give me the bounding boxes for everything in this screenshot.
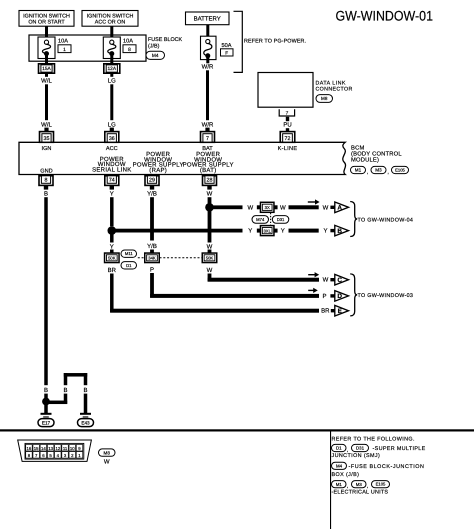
wire row A from junction bbox=[210, 205, 243, 209]
dashed link between inline connectors (SMJ row) bbox=[138, 257, 202, 259]
brace to GW-WINDOW-03 bbox=[350, 274, 413, 316]
ground E17 bbox=[38, 413, 54, 427]
inline connector 3XL (M74/D31) row B bbox=[257, 226, 278, 236]
fuse F (50A) bbox=[201, 36, 217, 59]
svg-text:B: B bbox=[63, 387, 67, 394]
direction arrow row C bbox=[308, 272, 319, 277]
connector 15A (J/B) bbox=[39, 64, 55, 73]
svg-text:W: W bbox=[323, 277, 329, 284]
wire label W (row A left) bbox=[247, 204, 253, 211]
wire label Y (row B right) bbox=[281, 228, 285, 235]
svg-text:IGNITION SWITCH: IGNITION SWITCH bbox=[87, 13, 134, 19]
wire Y below junction bbox=[110, 231, 114, 243]
connector ovals M1, M3, E105 bbox=[351, 166, 409, 175]
direction arrow row D bbox=[308, 288, 318, 293]
BCM label ACC bbox=[106, 146, 118, 152]
svg-text:W: W bbox=[207, 190, 213, 197]
wire: right leg to ground E43 bbox=[84, 394, 88, 414]
svg-text:B: B bbox=[44, 190, 48, 197]
connector oval M8 + W bbox=[99, 449, 116, 465]
wire label P (row D end) bbox=[322, 293, 326, 300]
svg-text:Y: Y bbox=[281, 228, 285, 235]
wire label P below connector bbox=[150, 266, 154, 273]
svg-text:-ELECTRICAL UNITS: -ELECTRICAL UNITS bbox=[332, 490, 389, 496]
svg-text:DATA LINK: DATA LINK bbox=[316, 80, 346, 86]
wire LG bbox=[110, 84, 113, 120]
svg-text:Y: Y bbox=[323, 228, 327, 235]
svg-text:M3: M3 bbox=[375, 168, 382, 173]
svg-text:CONNECTOR: CONNECTOR bbox=[316, 87, 353, 93]
label 10A / 1 bbox=[58, 39, 71, 53]
connector arrow E bbox=[335, 305, 349, 316]
inline connector 50K (M11/D1) bbox=[105, 253, 120, 262]
wire row C (W) horizontal bbox=[208, 278, 319, 282]
BCM pin 8 (GND) bbox=[39, 176, 53, 186]
svg-text:F: F bbox=[225, 50, 228, 56]
wire label BR below connector bbox=[108, 267, 117, 274]
svg-text:Y: Y bbox=[248, 228, 252, 235]
svg-text:Y: Y bbox=[110, 190, 114, 197]
wire: ignition sw acc/on to fuse 8 bbox=[110, 26, 113, 40]
wire P down bbox=[150, 273, 154, 298]
box: IGNITION SWITCH ACC OR ON bbox=[82, 11, 138, 27]
svg-text:D31: D31 bbox=[277, 217, 285, 222]
svg-text:BAT: BAT bbox=[202, 146, 213, 152]
wire stub above pin 7 bbox=[205, 128, 209, 133]
svg-text:D31: D31 bbox=[356, 446, 365, 451]
data link connector box bbox=[258, 73, 313, 108]
svg-text:36: 36 bbox=[109, 136, 115, 142]
BCM label POWER WINDOW POWER SUPPLY (RAP) bbox=[133, 151, 184, 174]
inline connector 34K bbox=[145, 253, 160, 262]
oval M4 - FUSE BLOCK-JUNCTION BOX (J/B) bbox=[332, 462, 425, 478]
svg-text:7: 7 bbox=[206, 136, 209, 142]
wire: left leg up (upper segment) bbox=[64, 373, 68, 385]
wire: left leg up (lower segment) bbox=[64, 394, 68, 404]
wire stub below 12A bbox=[110, 73, 113, 77]
label DATA LINK CONNECTOR / M8 bbox=[316, 80, 353, 102]
wire stub above pin 35 bbox=[44, 128, 48, 133]
svg-text:ACC OR ON: ACC OR ON bbox=[95, 20, 126, 26]
svg-text:50K: 50K bbox=[206, 255, 214, 260]
direction arrow row A bbox=[308, 199, 320, 204]
svg-text:-FUSE BLOCK-JUNCTION: -FUSE BLOCK-JUNCTION bbox=[349, 464, 425, 470]
svg-text:11: 11 bbox=[63, 446, 68, 451]
wire label LG (upper) bbox=[108, 78, 116, 85]
stub to triangle B bbox=[330, 229, 334, 232]
wire: top of inverted U bbox=[64, 373, 87, 377]
svg-text:W: W bbox=[207, 267, 213, 274]
svg-text:72: 72 bbox=[285, 136, 291, 142]
wire BR down bbox=[110, 274, 114, 313]
label 50A / F bbox=[221, 43, 234, 57]
svg-text:35: 35 bbox=[44, 136, 50, 142]
svg-text:D: D bbox=[337, 293, 342, 300]
connector arrow B bbox=[335, 225, 349, 236]
svg-text:W/L: W/L bbox=[41, 78, 52, 85]
BCM pin 72 (K-LINE) bbox=[280, 132, 295, 143]
wire stub below DLC pin 7 bbox=[286, 117, 289, 121]
svg-text:W: W bbox=[323, 204, 329, 211]
connector arrow D bbox=[335, 291, 349, 302]
svg-text:M8: M8 bbox=[321, 96, 328, 101]
BCM pin 29 bbox=[145, 176, 159, 186]
svg-text:W: W bbox=[247, 204, 253, 211]
connector ovals M11 / D1 bbox=[121, 250, 137, 269]
svg-text:B: B bbox=[83, 387, 87, 394]
svg-text:15: 15 bbox=[34, 446, 39, 451]
fuse 8 (10A) bbox=[103, 37, 120, 59]
svg-text:P: P bbox=[150, 266, 154, 273]
junction node on Y wire bbox=[108, 226, 117, 235]
svg-text:12A: 12A bbox=[108, 66, 117, 72]
svg-text:E105: E105 bbox=[376, 482, 386, 487]
wire row D (P) horizontal bbox=[150, 294, 319, 298]
svg-text:A: A bbox=[337, 205, 342, 212]
wire B (long) bbox=[44, 197, 48, 385]
junction node (B splice) bbox=[42, 398, 50, 406]
wire label LG (lower) bbox=[108, 121, 116, 128]
svg-text:E17: E17 bbox=[42, 420, 51, 425]
DLC pin 7 bbox=[279, 109, 294, 116]
inline connector 50K on W wire bbox=[202, 253, 217, 262]
svg-text:BR: BR bbox=[321, 308, 330, 315]
box: BATTERY bbox=[186, 12, 230, 25]
wire: right leg (upper segment) bbox=[84, 373, 88, 385]
stub to triangle A bbox=[330, 206, 334, 209]
svg-text:BR: BR bbox=[108, 267, 117, 274]
svg-text:8: 8 bbox=[128, 47, 131, 53]
fuse block (J/B) outline bbox=[29, 35, 146, 61]
svg-text:10: 10 bbox=[70, 446, 75, 451]
stub to triangle C bbox=[330, 278, 334, 281]
wire stub below 15A bbox=[45, 73, 48, 77]
connector arrow C bbox=[335, 274, 349, 285]
connector arrow A bbox=[335, 202, 349, 213]
svg-text:LG: LG bbox=[108, 78, 116, 85]
svg-text:-SUPER MULTIPLE: -SUPER MULTIPLE bbox=[373, 446, 426, 452]
svg-text:D1: D1 bbox=[336, 446, 342, 451]
svg-text:W: W bbox=[280, 204, 286, 211]
BCM label K-LINE bbox=[278, 146, 298, 152]
connector ovals M74 / D31 bbox=[252, 216, 289, 224]
svg-text:IGNITION SWITCH: IGNITION SWITCH bbox=[23, 13, 70, 19]
wire label W (row A end) bbox=[323, 204, 329, 211]
svg-text:(J/B): (J/B) bbox=[148, 43, 160, 49]
BCM label POWER WINDOW SERIAL LINK bbox=[92, 156, 131, 174]
svg-text:3X: 3X bbox=[265, 205, 270, 210]
svg-text:BATTERY: BATTERY bbox=[194, 16, 221, 23]
BCM label BAT bbox=[202, 146, 213, 152]
svg-text:50K: 50K bbox=[108, 255, 116, 260]
svg-text:SERIAL LINK: SERIAL LINK bbox=[92, 166, 131, 173]
svg-text:W/R: W/R bbox=[202, 121, 214, 128]
BCM label POWER WINDOW POWER SUPPLY (BAT) bbox=[183, 151, 234, 174]
wire W/L bbox=[45, 84, 48, 120]
wire stub + label B under pin 8 bbox=[44, 185, 48, 197]
wire W down to row C bbox=[208, 274, 212, 282]
svg-text:7: 7 bbox=[286, 110, 289, 116]
title GW-WINDOW-01 bbox=[336, 9, 433, 24]
wire stub below fuse F bbox=[206, 57, 209, 63]
svg-text:W/R: W/R bbox=[202, 64, 214, 71]
svg-text:TO GW-WINDOW-03: TO GW-WINDOW-03 bbox=[358, 293, 414, 299]
svg-text:REFER TO THE FOLLOWING.: REFER TO THE FOLLOWING. bbox=[332, 436, 415, 442]
svg-text:E: E bbox=[338, 308, 343, 315]
wire label PU bbox=[283, 122, 291, 129]
BCM label GND bbox=[40, 169, 52, 175]
svg-text:29: 29 bbox=[149, 177, 155, 183]
svg-text:15A: 15A bbox=[42, 66, 51, 72]
svg-text:MODULE): MODULE) bbox=[351, 157, 379, 164]
BCM pin 35 (IGN) bbox=[40, 132, 54, 143]
fuse 1 (10A) bbox=[38, 37, 55, 59]
BCM pin 28 bbox=[203, 176, 217, 186]
label FUSE BLOCK (J/B) M4 bbox=[146, 37, 183, 60]
svg-text:34K: 34K bbox=[148, 255, 156, 260]
svg-text:LG: LG bbox=[108, 121, 116, 128]
svg-text:ACC: ACC bbox=[106, 146, 118, 152]
svg-text:,: , bbox=[367, 484, 368, 490]
svg-text:K-LINE: K-LINE bbox=[278, 146, 298, 152]
svg-text:3XL: 3XL bbox=[263, 228, 271, 233]
svg-text:B: B bbox=[44, 387, 48, 394]
wire stub into connector 34K bbox=[150, 250, 154, 254]
wire label Y/B above connector bbox=[147, 243, 157, 250]
wire stub above pin 36 bbox=[110, 128, 114, 133]
wire label BR (row E end) bbox=[321, 308, 330, 315]
svg-text:10A: 10A bbox=[58, 39, 68, 45]
svg-text:M8: M8 bbox=[104, 450, 111, 455]
label BCM (BODY CONTROL MODULE) bbox=[351, 145, 402, 164]
svg-text:13: 13 bbox=[48, 446, 53, 451]
svg-text:GW-WINDOW-01: GW-WINDOW-01 bbox=[336, 9, 433, 24]
wire B to junction bbox=[44, 394, 48, 399]
svg-text:(RAP): (RAP) bbox=[149, 167, 167, 174]
wire row B from junction bbox=[112, 229, 243, 233]
svg-text:Y/B: Y/B bbox=[147, 243, 157, 250]
svg-text:8: 8 bbox=[45, 177, 48, 183]
svg-text:E105: E105 bbox=[395, 168, 405, 173]
svg-text:28: 28 bbox=[207, 177, 213, 183]
svg-text:M4: M4 bbox=[152, 53, 159, 59]
wire label W/L (upper) bbox=[41, 78, 52, 85]
wire label B bbox=[44, 387, 48, 394]
svg-text:Y: Y bbox=[110, 243, 114, 250]
svg-text:BCM: BCM bbox=[351, 145, 364, 152]
svg-text:12: 12 bbox=[55, 446, 60, 451]
svg-text:14: 14 bbox=[41, 446, 46, 451]
svg-text:JUNCTION (SMJ): JUNCTION (SMJ) bbox=[332, 453, 381, 459]
connector 12A (J/B) bbox=[104, 64, 120, 73]
svg-text:(BODY CONTROL: (BODY CONTROL bbox=[351, 151, 402, 158]
svg-text:M74: M74 bbox=[256, 217, 265, 222]
wire: junction to second ground leg (horizontal) bbox=[46, 401, 67, 405]
box: IGNITION SWITCH ON OR START bbox=[19, 11, 74, 27]
svg-text:E43: E43 bbox=[81, 420, 90, 425]
wire W from pin 28 bbox=[208, 197, 212, 203]
ovals M1 M3 E105 - ELECTRICAL UNITS bbox=[332, 481, 390, 496]
wire stub fuse 8 to connector 12A bbox=[110, 55, 113, 64]
svg-text:16: 16 bbox=[27, 446, 32, 451]
wire label W/R (lower) bbox=[202, 121, 214, 128]
note REFER TO THE FOLLOWING bbox=[332, 436, 415, 442]
wire label W below connector bbox=[207, 267, 213, 274]
svg-text:W: W bbox=[104, 458, 110, 465]
svg-text:REFER TO PG-POWER.: REFER TO PG-POWER. bbox=[244, 39, 306, 45]
wire label B (right leg) bbox=[83, 387, 87, 394]
wire label Y above connector bbox=[110, 243, 114, 250]
svg-text:C: C bbox=[337, 277, 342, 284]
svg-text:BOX (J/B): BOX (J/B) bbox=[332, 472, 360, 478]
svg-text:1: 1 bbox=[63, 47, 66, 53]
svg-text:W: W bbox=[207, 243, 213, 250]
wire B junction to ground E17 bbox=[44, 402, 48, 413]
label 10A / 8 bbox=[123, 39, 136, 53]
BCM pin 74 bbox=[105, 176, 119, 186]
svg-text:IGN: IGN bbox=[42, 146, 52, 152]
svg-text:TO GW-WINDOW-04: TO GW-WINDOW-04 bbox=[358, 217, 414, 223]
wire: battery to fuse F bbox=[206, 25, 209, 40]
dotted link between 3X connectors bbox=[270, 213, 272, 225]
svg-text:74: 74 bbox=[109, 177, 115, 183]
BCM pin 7 (BAT) bbox=[201, 132, 215, 143]
wire row A thick segment bbox=[289, 205, 319, 209]
wire label W/L (lower) bbox=[41, 121, 52, 128]
ground E43 bbox=[78, 413, 94, 427]
wire label W/R (upper) bbox=[202, 64, 214, 71]
wire W/R bbox=[206, 70, 209, 120]
brace to GW-WINDOW-04 bbox=[350, 202, 413, 237]
wire row B thick segment bbox=[289, 229, 319, 233]
BCM label IGN bbox=[42, 146, 52, 152]
inline connector 3X (M74/D31) row A bbox=[257, 202, 278, 212]
wire label W above connector bbox=[207, 243, 213, 250]
svg-text:(BAT): (BAT) bbox=[200, 167, 217, 174]
wire Y/B from pin 29 bbox=[150, 197, 154, 240]
BCM pin 36 (ACC) bbox=[105, 132, 119, 143]
svg-text:D1: D1 bbox=[126, 263, 132, 268]
wire stub into connector 50K (W) bbox=[208, 250, 212, 254]
BCM (body control module) box bbox=[19, 142, 346, 174]
svg-text:,: , bbox=[347, 484, 348, 490]
svg-text:ON OR START: ON OR START bbox=[28, 20, 65, 26]
wire Y from pin 74 bbox=[110, 197, 114, 226]
svg-text:M1: M1 bbox=[355, 168, 362, 173]
svg-text:M1: M1 bbox=[336, 482, 343, 487]
junction node on W wire bbox=[205, 203, 214, 212]
wire row E (BR) horizontal bbox=[110, 309, 319, 313]
svg-text:M3: M3 bbox=[356, 482, 363, 487]
bracket: REFER TO PG-POWER bbox=[234, 11, 307, 72]
svg-text:B: B bbox=[337, 228, 342, 235]
svg-text:10A: 10A bbox=[123, 39, 133, 45]
svg-text:GND: GND bbox=[40, 169, 52, 175]
wire stub + label Y under pin 74 bbox=[110, 185, 114, 197]
stub to triangle E bbox=[331, 309, 335, 312]
wire label W (row C end) bbox=[323, 277, 329, 284]
wire stub above pin 72 bbox=[286, 128, 289, 132]
wire label Y (row B left) bbox=[248, 228, 252, 235]
svg-text:M4: M4 bbox=[336, 463, 343, 468]
wire stub fuse 1 to connector 15A bbox=[45, 55, 48, 64]
svg-text:FUSE BLOCK: FUSE BLOCK bbox=[148, 37, 183, 43]
svg-text:P: P bbox=[322, 293, 326, 300]
wire label Y (row B end) bbox=[323, 228, 327, 235]
wire stub + label Y/B under pin 29 bbox=[147, 185, 157, 197]
ovals D1 D31 - SUPER MULTIPLE JUNCTION (SMJ) bbox=[332, 444, 426, 459]
wire: ignition sw on/start to fuse 1 bbox=[45, 26, 48, 40]
separator line bbox=[0, 429, 474, 431]
wire stub + label W under pin 28 bbox=[207, 185, 213, 197]
svg-text:50A: 50A bbox=[222, 43, 232, 49]
wire W below junction bbox=[208, 207, 212, 242]
svg-text:Y/B: Y/B bbox=[147, 190, 157, 197]
svg-text:W/L: W/L bbox=[41, 121, 52, 128]
svg-text:PU: PU bbox=[283, 122, 291, 129]
wire stub into connector 50K bbox=[110, 250, 114, 254]
wire label B (left leg) bbox=[63, 387, 67, 394]
svg-text:M11: M11 bbox=[125, 251, 134, 256]
data link connector face M8 bbox=[18, 440, 92, 461]
stub to triangle D bbox=[330, 294, 334, 297]
footer vertical divider bbox=[330, 431, 331, 529]
wire label W (row A right) bbox=[280, 204, 286, 211]
